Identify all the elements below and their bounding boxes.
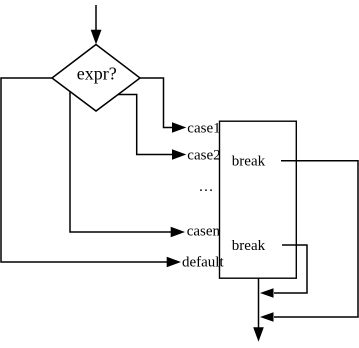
svg-text:…: … bbox=[199, 179, 214, 195]
arrowhead break1 (left) bbox=[260, 312, 274, 322]
wire exit vertical below rectangle bbox=[258, 278, 260, 329]
svg-text:case2: case2 bbox=[187, 148, 220, 164]
svg-text:default: default bbox=[182, 254, 224, 270]
wire entry vertical into diamond bbox=[95, 5, 97, 31]
arrowhead case1 (right) bbox=[172, 122, 186, 132]
wire case2 from diamond lower-right edge bbox=[118, 95, 173, 155]
arrowhead casen (right) bbox=[171, 227, 185, 237]
svg-text:break: break bbox=[232, 238, 266, 254]
arrowhead default (right) bbox=[167, 257, 181, 267]
arrowhead case2 (right) bbox=[172, 149, 186, 159]
wire default from diamond left vertex bbox=[1, 78, 168, 262]
wire casen from diamond lower-left edge bbox=[70, 91, 172, 232]
svg-text:case1: case1 bbox=[187, 121, 220, 137]
svg-text:expr?: expr? bbox=[77, 63, 117, 83]
svg-text:casen: casen bbox=[187, 223, 221, 239]
arrowhead break2 (left) bbox=[260, 288, 274, 298]
svg-text:break: break bbox=[232, 154, 266, 170]
wire break1 out right and down bbox=[274, 161, 358, 317]
arrowhead entry (down) bbox=[91, 30, 102, 45]
arrowhead exit (down) bbox=[253, 327, 264, 342]
wire break2 out right and down bbox=[274, 245, 307, 293]
decision diamond expr? bbox=[52, 45, 140, 112]
statement-body rectangle bbox=[220, 121, 297, 278]
wire case1 from diamond right vertex bbox=[140, 78, 173, 128]
